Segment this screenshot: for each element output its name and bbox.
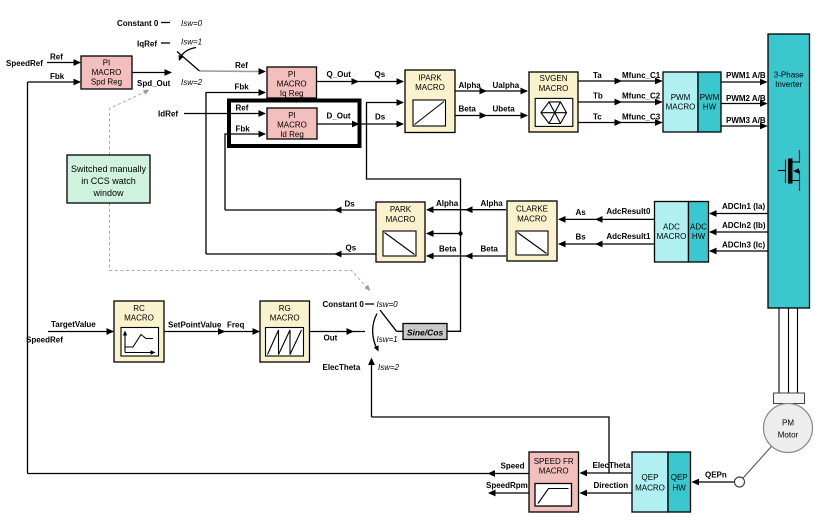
svg-text:Isw=1: Isw=1 xyxy=(377,335,398,344)
svg-text:Motor: Motor xyxy=(778,431,799,440)
wire Speed output (to speed Fbk) xyxy=(28,462,530,477)
svg-text:Alpha: Alpha xyxy=(436,199,459,208)
svg-text:Qs: Qs xyxy=(346,244,357,253)
svg-text:MACRO: MACRO xyxy=(539,84,569,93)
svg-text:Spd_Out: Spd_Out xyxy=(137,79,171,88)
wire TargetValue into RC MACRO xyxy=(48,320,114,335)
wire Fbk into PI Id Reg (Ds feedback) xyxy=(225,125,266,211)
wire Tb / Mfunc_C2 to PWM xyxy=(578,92,663,106)
wire PWM3 A/B to inverter xyxy=(721,116,768,129)
label IdRef and wire into PI Id Reg xyxy=(158,110,266,119)
svg-text:PWM1 A/B: PWM1 A/B xyxy=(726,71,766,80)
svg-text:HW: HW xyxy=(692,232,706,241)
svg-text:Q_Out: Q_Out xyxy=(327,70,352,79)
svg-text:Ta: Ta xyxy=(593,71,602,80)
svg-text:Tc: Tc xyxy=(593,113,602,122)
svg-text:PI: PI xyxy=(288,111,296,120)
wire Spd_Out from PI Spd Reg xyxy=(132,69,172,88)
block ADC MACRO xyxy=(655,202,689,263)
wire Fbk into PI Spd Reg (speed feedback) xyxy=(28,72,82,85)
svg-text:Id Reg: Id Reg xyxy=(280,130,304,139)
svg-text:SpeedRpm: SpeedRpm xyxy=(486,481,528,490)
wire ElecTheta into SPEED FR xyxy=(580,461,633,476)
svg-text:Qs: Qs xyxy=(375,70,386,79)
svg-text:PI: PI xyxy=(288,70,296,79)
label Isw=2 (bottom switch) xyxy=(378,363,400,372)
svg-text:Beta: Beta xyxy=(459,105,477,114)
svg-text:Sine/Cos: Sine/Cos xyxy=(407,327,444,337)
svg-text:MACRO: MACRO xyxy=(666,103,696,112)
label SpeedRef (speed reference input) xyxy=(6,59,43,68)
wire AdcResult0 / As to CLARKE xyxy=(558,207,655,223)
machine PM Motor xyxy=(764,404,813,453)
svg-text:PWM2 A/B: PWM2 A/B xyxy=(726,94,766,103)
svg-text:Ds: Ds xyxy=(375,113,386,122)
svg-text:Out: Out xyxy=(324,334,338,343)
svg-text:PWM: PWM xyxy=(700,93,720,102)
svg-text:AdcResult1: AdcResult1 xyxy=(606,232,651,241)
node Isw=0 Constant 0 stub (bottom switch) xyxy=(323,300,375,309)
svg-text:PARK: PARK xyxy=(390,205,412,214)
svg-text:PWM3 A/B: PWM3 A/B xyxy=(726,116,766,125)
wire ADCIn2 (Ib) xyxy=(709,221,768,235)
block PWM MACRO xyxy=(663,72,698,132)
svg-text:MACRO: MACRO xyxy=(270,314,300,323)
svg-text:SPEED FR: SPEED FR xyxy=(534,457,574,466)
label Isw=0 (top switch) xyxy=(181,19,203,28)
svg-text:Constant 0: Constant 0 xyxy=(323,300,365,309)
node junction on Sine/Cos line xyxy=(458,231,462,235)
pi-controller PI MACRO Iq Reg xyxy=(267,67,317,98)
svg-text:MACRO: MACRO xyxy=(539,467,569,476)
transform PARK MACRO xyxy=(376,202,425,262)
svg-text:Isw=1: Isw=1 xyxy=(181,38,202,47)
wire AdcResult1 / Bs to CLARKE xyxy=(558,232,655,247)
svg-text:Mfunc_C3: Mfunc_C3 xyxy=(622,113,661,122)
highlight thick box around PI Id Reg xyxy=(229,101,360,147)
wire PWM1 A/B to inverter xyxy=(721,71,768,85)
svg-text:Mfunc_C2: Mfunc_C2 xyxy=(622,92,661,101)
label Isw=0 (bottom switch) xyxy=(377,300,399,309)
label Isw=1 (bottom switch) xyxy=(377,335,398,344)
svg-text:RC: RC xyxy=(133,304,145,313)
wire motor shaft to encoder xyxy=(740,428,789,482)
wire speed feedback vertical xyxy=(27,82,29,474)
block PWM HW xyxy=(698,72,721,132)
svg-text:SpeedRef: SpeedRef xyxy=(26,336,63,345)
svg-text:QEP: QEP xyxy=(671,473,688,482)
svg-text:MACRO: MACRO xyxy=(277,80,307,89)
wire Alpha from CLARKE to PARK xyxy=(426,199,506,213)
svg-text:CLARKE: CLARKE xyxy=(516,205,548,214)
block ADC HW xyxy=(689,202,709,263)
svg-text:Spd Reg: Spd Reg xyxy=(91,78,122,87)
svg-text:HW: HW xyxy=(703,103,717,112)
svg-text:ADCIn2 (Ib): ADCIn2 (Ib) xyxy=(722,221,766,230)
block SPEED FR MACRO xyxy=(529,452,579,512)
svg-text:ElecTheta: ElecTheta xyxy=(593,461,631,470)
block motor terminal box xyxy=(774,393,805,404)
block QEP HW xyxy=(668,452,691,512)
node QEPn encoder connector xyxy=(735,477,745,487)
svg-text:IdRef: IdRef xyxy=(158,110,178,119)
wire Sine/Cos feed up to IPARK xyxy=(367,99,461,331)
wire Ds from PARK to Id Fbk xyxy=(225,200,376,214)
svg-text:RG: RG xyxy=(279,304,291,313)
svg-text:Isw=2: Isw=2 xyxy=(181,78,203,87)
wire Ref into PI Spd Reg xyxy=(47,53,81,66)
svg-text:IPARK: IPARK xyxy=(418,74,442,83)
svg-text:D_Out: D_Out xyxy=(327,112,351,121)
transform CLARKE MACRO xyxy=(507,201,557,261)
annotation dashed line to bottom switch xyxy=(110,203,371,291)
svg-text:window: window xyxy=(92,188,124,198)
svg-text:Isw=2: Isw=2 xyxy=(378,363,400,372)
pi-controller PI MACRO Id Reg xyxy=(267,108,317,139)
transform IPARK MACRO xyxy=(405,70,455,133)
svg-text:MACRO: MACRO xyxy=(92,68,122,77)
svg-text:Constant 0: Constant 0 xyxy=(117,19,159,28)
svg-text:PM: PM xyxy=(782,419,794,428)
wire ADCIn1 (Ia) xyxy=(709,202,768,217)
svg-text:QEP: QEP xyxy=(642,473,659,482)
svg-text:3-Phase: 3-Phase xyxy=(774,71,804,80)
svg-text:Speed: Speed xyxy=(501,462,525,471)
svg-text:Bs: Bs xyxy=(576,233,587,242)
svg-text:Mfunc_C1: Mfunc_C1 xyxy=(622,71,661,80)
svg-text:Isw=0: Isw=0 xyxy=(377,300,399,309)
label Isw=2 (top switch) xyxy=(181,78,203,87)
pi-controller PI MACRO Spd Reg xyxy=(81,56,132,89)
svg-text:Ds: Ds xyxy=(345,200,356,209)
label ElecTheta (bottom switch) xyxy=(323,363,361,372)
svg-text:Fbk: Fbk xyxy=(236,125,251,134)
svg-text:Tb: Tb xyxy=(593,92,603,101)
block QEP MACRO xyxy=(632,452,668,512)
svg-text:Ref: Ref xyxy=(50,53,63,62)
svg-text:Beta: Beta xyxy=(439,245,457,254)
wire Beta from CLARKE to PARK xyxy=(426,245,506,260)
label Isw=1 (top switch) xyxy=(181,38,202,47)
wire Sine/Cos branch into PARK xyxy=(426,230,461,237)
callout Switched manually in CCS watch window xyxy=(67,155,150,203)
svg-text:MACRO: MACRO xyxy=(517,215,547,224)
svg-text:Direction: Direction xyxy=(594,481,629,490)
wire SetPointValue / Freq to RG xyxy=(164,321,260,335)
svg-text:Beta: Beta xyxy=(481,245,499,254)
wire Beta / Ubeta to SVGEN xyxy=(455,105,528,119)
svg-text:HW: HW xyxy=(673,484,687,493)
block RC MACRO xyxy=(114,301,164,362)
svg-text:Isw=0: Isw=0 xyxy=(181,19,203,28)
svg-text:AdcResult0: AdcResult0 xyxy=(606,207,651,216)
block Sine/Cos xyxy=(403,324,447,340)
svg-text:Ref: Ref xyxy=(236,104,249,113)
svg-text:ADC: ADC xyxy=(690,223,707,232)
transform SVGEN MACRO xyxy=(529,72,578,132)
svg-text:ElecTheta: ElecTheta xyxy=(323,363,361,372)
svg-text:ADCIn3 (Ic): ADCIn3 (Ic) xyxy=(722,241,765,250)
svg-text:MACRO: MACRO xyxy=(415,83,445,92)
svg-text:PI: PI xyxy=(103,59,111,68)
svg-text:MACRO: MACRO xyxy=(124,314,154,323)
wire D_Out / Ds to IPARK xyxy=(317,112,404,128)
wire ElecTheta up into switch xyxy=(368,358,375,418)
wire ADCIn3 (Ic) xyxy=(709,241,768,255)
svg-text:IqRef: IqRef xyxy=(137,40,157,49)
node Isw=1 IqRef stub (top switch) xyxy=(137,40,170,49)
block RG MACRO xyxy=(260,301,310,362)
wire Fbk into PI Iq Reg (Qs feedback) xyxy=(206,83,266,255)
wire PWM2 A/B to inverter xyxy=(721,94,768,107)
block 3-Phase Inverter xyxy=(768,34,810,308)
svg-text:MACRO: MACRO xyxy=(386,215,416,224)
svg-text:As: As xyxy=(576,208,587,217)
svg-text:SpeedRef: SpeedRef xyxy=(6,59,43,68)
svg-text:SVGEN: SVGEN xyxy=(539,74,567,83)
svg-text:MACRO: MACRO xyxy=(635,484,665,493)
switch SW2 blade (theta select) xyxy=(373,310,403,352)
wire ElecTheta branch from QEP xyxy=(372,417,610,473)
label Ref of PI Id Reg xyxy=(236,104,249,113)
svg-text:Ualpha: Ualpha xyxy=(493,81,520,90)
svg-text:SetPointValue: SetPointValue xyxy=(168,321,222,330)
svg-text:MACRO: MACRO xyxy=(657,232,687,241)
wire Direction into SPEED FR xyxy=(580,481,633,496)
wire Qs from PARK to Iq Fbk xyxy=(206,244,376,258)
svg-text:ADC: ADC xyxy=(663,223,680,232)
svg-text:Ubeta: Ubeta xyxy=(493,105,516,114)
svg-text:Switched manually: Switched manually xyxy=(71,164,147,174)
svg-text:QEPn: QEPn xyxy=(705,471,727,480)
svg-text:Inverter: Inverter xyxy=(775,80,802,89)
wire Out from RG to switch xyxy=(310,328,366,342)
wire Ref from switch to PI Iq Reg (gray) xyxy=(200,61,267,75)
svg-text:MACRO: MACRO xyxy=(277,121,307,130)
wire Tc / Mfunc_C3 to PWM xyxy=(578,113,663,126)
svg-text:Ref: Ref xyxy=(235,61,248,70)
wire motor phase lines xyxy=(779,308,798,393)
wire Ta / Mfunc_C1 to PWM xyxy=(578,71,663,84)
svg-text:Iq Reg: Iq Reg xyxy=(280,89,304,98)
wire Alpha / Ualpha to SVGEN xyxy=(455,81,528,94)
wire Q_Out / Qs to IPARK xyxy=(317,70,405,85)
svg-text:in CCS watch: in CCS watch xyxy=(81,176,136,186)
svg-text:TargetValue: TargetValue xyxy=(51,320,96,329)
wire SpeedRpm output xyxy=(486,481,529,496)
svg-text:Fbk: Fbk xyxy=(235,83,250,92)
svg-text:PWM: PWM xyxy=(671,93,691,102)
annotation dashed line to top switch xyxy=(110,90,150,155)
svg-text:Alpha: Alpha xyxy=(481,199,504,208)
svg-text:Freq: Freq xyxy=(227,321,244,330)
svg-text:Alpha: Alpha xyxy=(459,81,482,90)
transistor MOSFET symbol in inverter xyxy=(778,150,800,191)
switch SW1 blade (Iq reference select) xyxy=(177,48,200,72)
svg-text:ADCIn1 (Ia): ADCIn1 (Ia) xyxy=(722,202,765,211)
wire QEPn into QEP HW xyxy=(692,471,735,486)
label SpeedRef (ramp input) xyxy=(26,336,63,345)
node Isw=0 Constant 0 stub (top switch) xyxy=(117,19,170,28)
svg-text:Fbk: Fbk xyxy=(50,72,65,81)
